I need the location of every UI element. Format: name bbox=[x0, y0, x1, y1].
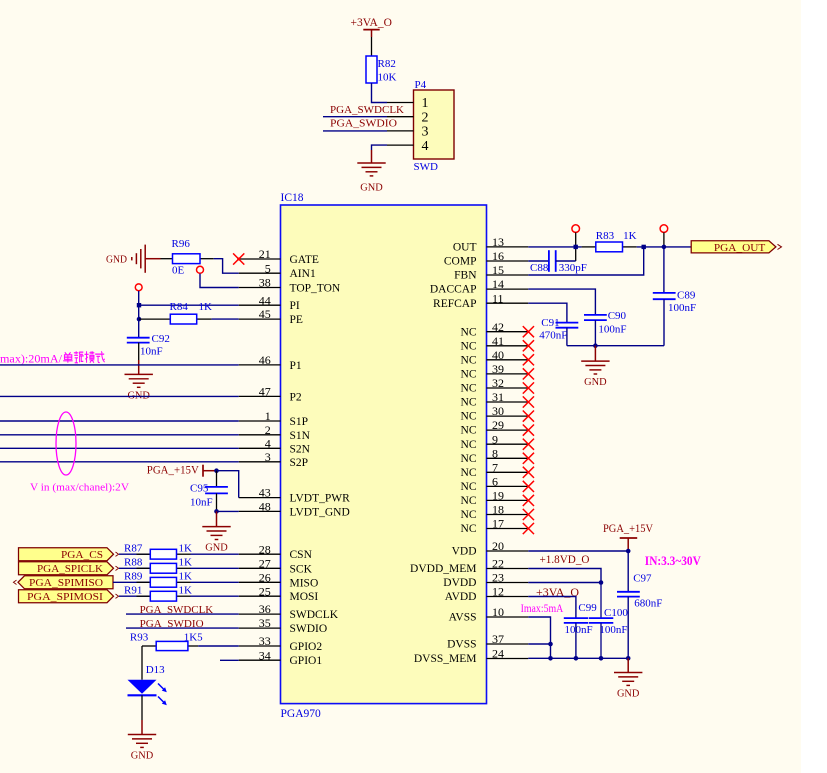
ground rail (C90/C91/C89) bbox=[567, 345, 664, 347]
svg-text:44: 44 bbox=[259, 293, 271, 307]
svg-text:GATE: GATE bbox=[290, 254, 319, 266]
port PGA_SPICLK bbox=[19, 562, 119, 575]
pin 39 (NC) right bbox=[461, 362, 534, 381]
svg-text:C95: C95 bbox=[190, 483, 209, 495]
svg-text:24: 24 bbox=[492, 647, 504, 661]
ground (left, rotated) near R96 bbox=[106, 245, 161, 273]
svg-text:NC: NC bbox=[461, 354, 477, 366]
power PGA_+15V (LVDT) bbox=[147, 465, 217, 477]
svg-text:1K: 1K bbox=[179, 585, 193, 597]
svg-text:P1: P1 bbox=[290, 360, 302, 372]
no-ERC marker (PI column top) bbox=[135, 284, 142, 291]
pin 29 (NC) right bbox=[461, 418, 534, 437]
pin 48 (LVDT_GND) left bbox=[239, 500, 350, 519]
svg-text:SWD: SWD bbox=[414, 161, 439, 173]
svg-text:40: 40 bbox=[492, 348, 504, 362]
junction rail 2 bbox=[574, 656, 579, 661]
svg-text:39: 39 bbox=[492, 362, 504, 376]
junction (gnd rail C90) bbox=[593, 343, 598, 348]
net label PGA_SWDCLK (mid) bbox=[140, 604, 214, 616]
wire pin37 bbox=[528, 643, 550, 645]
svg-text:R96: R96 bbox=[172, 238, 191, 250]
junction (R83 left) bbox=[574, 245, 578, 249]
svg-text:DVDD_MEM: DVDD_MEM bbox=[410, 563, 476, 575]
svg-text:5: 5 bbox=[265, 261, 271, 275]
pin 44 (PI) left bbox=[239, 293, 300, 312]
svg-text:330pF: 330pF bbox=[559, 262, 587, 274]
svg-text:GND: GND bbox=[360, 182, 383, 194]
svg-text:NC: NC bbox=[461, 495, 477, 507]
no-connect X pin 21 bbox=[233, 253, 244, 264]
svg-text:NC: NC bbox=[461, 425, 477, 437]
svg-text:PGA_+15V: PGA_+15V bbox=[147, 465, 200, 477]
svg-text:GPIO2: GPIO2 bbox=[290, 641, 323, 653]
svg-text:25: 25 bbox=[259, 584, 271, 598]
svg-text:10nF: 10nF bbox=[140, 346, 163, 358]
svg-text:GPIO1: GPIO1 bbox=[290, 655, 323, 667]
svg-text:SCK: SCK bbox=[290, 563, 313, 575]
ground (bottom right) bbox=[614, 658, 642, 699]
power +3VA_O bbox=[351, 17, 392, 37]
svg-text:32: 32 bbox=[492, 376, 504, 390]
pin 21 (GATE) left bbox=[239, 247, 319, 266]
svg-text:CSN: CSN bbox=[290, 549, 313, 561]
port PGA_CS bbox=[19, 548, 119, 561]
junction rail 1 bbox=[548, 656, 553, 661]
svg-text:35: 35 bbox=[259, 616, 271, 630]
wire S2P bbox=[0, 461, 239, 463]
svg-text:29: 29 bbox=[492, 418, 504, 432]
wire pin22 bbox=[528, 569, 601, 583]
pin 14 (DACCAP) right bbox=[430, 277, 528, 296]
wire R96 to AIN1 bbox=[214, 259, 239, 274]
pin 4 (S2N) left bbox=[239, 436, 311, 455]
svg-text:GND: GND bbox=[127, 389, 150, 401]
pin 17 (NC) right bbox=[461, 517, 534, 536]
no-ERC marker (R83 left) bbox=[572, 225, 580, 233]
svg-text:6: 6 bbox=[492, 475, 498, 489]
pin 42 (NC) right bbox=[461, 320, 534, 339]
svg-text:10K: 10K bbox=[378, 72, 397, 84]
capacitor C100 bbox=[589, 583, 628, 659]
svg-text:4: 4 bbox=[265, 436, 271, 450]
ground (P4) bbox=[357, 150, 385, 194]
capacitor C95 bbox=[190, 471, 228, 512]
ground (C95) bbox=[202, 511, 230, 553]
svg-text:38: 38 bbox=[259, 276, 271, 290]
wire to pin 46 bbox=[0, 364, 239, 366]
wire stub (R83 left) bbox=[575, 232, 577, 261]
resistor R82 bbox=[366, 56, 397, 84]
svg-text:NC: NC bbox=[461, 523, 477, 535]
ground (C92) bbox=[125, 360, 153, 401]
svg-text:10nF: 10nF bbox=[190, 497, 213, 509]
svg-text:NC: NC bbox=[461, 509, 477, 521]
svg-text:8: 8 bbox=[492, 446, 498, 460]
resistor R84 bbox=[139, 301, 212, 324]
pin 19 (NC) right bbox=[461, 489, 534, 508]
svg-text:DACCAP: DACCAP bbox=[430, 284, 477, 296]
wire to TOP_TON bbox=[200, 274, 239, 288]
pin 16 (COMP) right bbox=[444, 249, 528, 268]
svg-text:NC: NC bbox=[461, 439, 477, 451]
svg-text:PGA_OUT: PGA_OUT bbox=[714, 242, 766, 254]
svg-text:PGA_SWDCLK: PGA_SWDCLK bbox=[330, 104, 404, 116]
svg-text:15: 15 bbox=[492, 263, 504, 277]
pin 20 (VDD) right bbox=[452, 539, 529, 558]
pin 26 (MISO) left bbox=[239, 570, 319, 589]
svg-text:FBN: FBN bbox=[454, 270, 477, 282]
LED D13 bbox=[128, 664, 167, 705]
wire pin10 (AVSS) bbox=[528, 617, 550, 658]
svg-text:1: 1 bbox=[422, 96, 429, 111]
svg-text:max):20mA/: max):20mA/ bbox=[0, 352, 63, 366]
junction rail 3 bbox=[599, 656, 604, 661]
svg-text:43: 43 bbox=[259, 486, 271, 500]
wire pin35 bbox=[126, 627, 239, 629]
wire R84 to pin 45 bbox=[212, 318, 239, 320]
svg-text:NC: NC bbox=[461, 326, 477, 338]
port PGA_SPIMISO bbox=[13, 576, 113, 589]
svg-text:NC: NC bbox=[461, 397, 477, 409]
net label +3VA_O (AVDD) bbox=[536, 587, 579, 599]
svg-text:9: 9 bbox=[492, 432, 498, 446]
wire S1P bbox=[0, 420, 239, 422]
svg-text:C100: C100 bbox=[604, 607, 628, 619]
svg-text:+1.8VD_O: +1.8VD_O bbox=[540, 554, 590, 566]
pin 3 of P4 bbox=[387, 125, 429, 140]
svg-text:R82: R82 bbox=[378, 58, 396, 70]
svg-text:OUT: OUT bbox=[453, 242, 477, 254]
wire pin13 to R83 bbox=[528, 246, 581, 248]
pin 5 (AIN1) left bbox=[239, 261, 316, 280]
svg-text:S2P: S2P bbox=[290, 457, 309, 469]
svg-text:22: 22 bbox=[492, 557, 504, 571]
svg-text:SWDIO: SWDIO bbox=[290, 623, 328, 635]
wire P4 pin4 to GND bbox=[372, 145, 388, 150]
svg-text:1K: 1K bbox=[179, 571, 193, 583]
svg-text:42: 42 bbox=[492, 320, 504, 334]
junction (PE) bbox=[137, 317, 142, 322]
svg-text:R89: R89 bbox=[124, 571, 143, 583]
svg-text:IN:3.3~30V: IN:3.3~30V bbox=[645, 554, 701, 568]
svg-text:C88: C88 bbox=[530, 262, 549, 274]
pin 36 (SWDCLK) left bbox=[239, 602, 339, 621]
capacitor C90 bbox=[584, 310, 627, 346]
svg-text:31: 31 bbox=[492, 390, 504, 404]
wire pin34 stub bbox=[220, 659, 239, 661]
svg-text:C92: C92 bbox=[152, 333, 170, 345]
svg-text:30: 30 bbox=[492, 404, 504, 418]
svg-text:14: 14 bbox=[492, 277, 504, 291]
pin 43 (LVDT_PWR) left bbox=[239, 486, 350, 505]
junction rail 4 bbox=[626, 656, 631, 661]
pin 2 of P4 bbox=[387, 110, 429, 125]
svg-text:LVDT_PWR: LVDT_PWR bbox=[290, 493, 351, 505]
net label PGA_SWDIO (top) bbox=[330, 118, 397, 130]
pin 25 (MOSI) left bbox=[239, 584, 319, 603]
svg-text:1K5: 1K5 bbox=[184, 632, 203, 644]
svg-text:1: 1 bbox=[265, 409, 271, 423]
svg-text:17: 17 bbox=[492, 517, 504, 531]
svg-text:C99: C99 bbox=[578, 602, 597, 614]
pin 28 (CSN) left bbox=[239, 542, 313, 561]
svg-text:33: 33 bbox=[259, 634, 271, 648]
svg-text:1K: 1K bbox=[179, 557, 193, 569]
junction (OUT node) bbox=[662, 245, 667, 250]
wire power to LVDT_PWR bbox=[217, 471, 239, 498]
no-ERC marker (OUT node) bbox=[660, 225, 668, 233]
svg-text:DVSS_MEM: DVSS_MEM bbox=[414, 653, 477, 665]
wire stub (OUT node) bbox=[663, 232, 665, 247]
svg-text:R88: R88 bbox=[124, 557, 143, 569]
svg-text:12: 12 bbox=[492, 585, 504, 599]
svg-text:21: 21 bbox=[259, 247, 271, 261]
wire FBN riser bbox=[528, 247, 643, 275]
pin 9 (NC) right bbox=[461, 432, 534, 451]
svg-text:P2: P2 bbox=[290, 391, 302, 403]
ground (C90) bbox=[581, 346, 609, 388]
svg-text:S1P: S1P bbox=[290, 416, 309, 428]
capacitor C97 bbox=[617, 551, 662, 658]
annotation V in bbox=[30, 482, 129, 494]
wire D13 to ground bbox=[141, 695, 143, 720]
svg-text:AVSS: AVSS bbox=[449, 612, 477, 624]
svg-text:V in (max/chanel):2V: V in (max/chanel):2V bbox=[30, 482, 129, 494]
svg-text:PGA_CS: PGA_CS bbox=[61, 549, 103, 561]
wire PGA_SWDCLK bbox=[323, 116, 387, 118]
svg-text:S1N: S1N bbox=[290, 430, 311, 442]
svg-text:TOP_TON: TOP_TON bbox=[290, 283, 341, 295]
svg-text:100nF: 100nF bbox=[668, 302, 696, 314]
pin 1 (S1P) left bbox=[239, 409, 308, 428]
pin 10 (AVSS) right bbox=[449, 605, 529, 624]
svg-text:SWDCLK: SWDCLK bbox=[290, 609, 339, 621]
svg-text:C97: C97 bbox=[633, 573, 652, 585]
resistor R93 bbox=[130, 632, 239, 651]
svg-text:S2N: S2N bbox=[290, 443, 311, 455]
svg-text:GND: GND bbox=[131, 750, 154, 762]
pin 18 (NC) right bbox=[461, 503, 534, 522]
pin 37 (DVSS) right bbox=[447, 632, 528, 651]
svg-text:26: 26 bbox=[259, 570, 271, 584]
svg-text:DVDD: DVDD bbox=[443, 577, 476, 589]
pin 15 (FBN) right bbox=[454, 263, 528, 282]
svg-text:47: 47 bbox=[259, 385, 271, 399]
junction (VDD) bbox=[626, 549, 631, 554]
svg-text:P4: P4 bbox=[415, 79, 427, 91]
no-ERC marker (node to TOP_TON) bbox=[197, 266, 204, 273]
wire R82 to P4 pin1 bbox=[372, 83, 388, 103]
svg-text:PGA_SPIMOSI: PGA_SPIMOSI bbox=[27, 591, 103, 603]
svg-text:20: 20 bbox=[492, 539, 504, 553]
svg-text:VDD: VDD bbox=[452, 546, 477, 558]
svg-text:IC18: IC18 bbox=[281, 192, 304, 204]
net label PGA_SWDCLK (top) bbox=[330, 104, 404, 116]
svg-text:+3VA_O: +3VA_O bbox=[351, 17, 392, 29]
chinese annotation bbox=[0, 351, 105, 365]
resistor R88 bbox=[119, 557, 239, 574]
wire pin12 bbox=[528, 597, 576, 619]
capacitor C99 bbox=[564, 602, 597, 658]
resistor R91 bbox=[119, 585, 239, 602]
svg-text:LVDT_GND: LVDT_GND bbox=[290, 506, 350, 518]
svg-text:1K: 1K bbox=[623, 230, 637, 242]
pin 12 (AVDD) right bbox=[445, 585, 529, 604]
annotation ellipse bbox=[56, 412, 76, 475]
svg-text:GND: GND bbox=[617, 688, 640, 700]
junction (DVSS) bbox=[548, 642, 553, 647]
power PGA_+15V (VDD) bbox=[603, 523, 654, 551]
capacitor C88 bbox=[528, 250, 587, 274]
svg-text:R87: R87 bbox=[124, 543, 143, 555]
svg-text:D13: D13 bbox=[146, 664, 165, 676]
svg-text:REFCAP: REFCAP bbox=[433, 298, 476, 310]
junction (FBN riser) bbox=[642, 245, 646, 249]
pin 22 (DVDD_MEM) right bbox=[410, 557, 528, 576]
wire DACCAP to C90 bbox=[528, 289, 595, 315]
wire pin23 bbox=[528, 582, 601, 584]
resistor R83 bbox=[582, 230, 637, 252]
svg-text:GND: GND bbox=[584, 376, 607, 388]
wire to pin 47 bbox=[0, 395, 239, 397]
wire PGA_SWDIO bbox=[323, 130, 387, 132]
svg-text:PE: PE bbox=[290, 314, 303, 326]
wire REFCAP to C91 bbox=[528, 303, 567, 322]
svg-text:PI: PI bbox=[290, 300, 300, 312]
resistor R96 bbox=[161, 238, 214, 277]
pin 35 (SWDIO) left bbox=[239, 616, 328, 635]
pin 8 (NC) right bbox=[461, 446, 534, 465]
pin 31 (NC) right bbox=[461, 390, 534, 409]
op-amp IC18 body bbox=[281, 192, 487, 720]
pin 6 (NC) right bbox=[461, 475, 534, 494]
svg-text:11: 11 bbox=[492, 291, 504, 305]
annotation Imax bbox=[521, 603, 564, 615]
wire PI column vertical bbox=[138, 291, 140, 338]
svg-text:45: 45 bbox=[259, 307, 271, 321]
wire to pin 44 bbox=[139, 304, 239, 306]
net label +1.8VD_O bbox=[540, 554, 590, 566]
svg-text:R84: R84 bbox=[170, 301, 189, 313]
pin 24 (DVSS_MEM) right bbox=[414, 647, 528, 666]
svg-text:19: 19 bbox=[492, 489, 504, 503]
svg-text:18: 18 bbox=[492, 503, 504, 517]
svg-text:1K: 1K bbox=[179, 543, 193, 555]
port PGA_SPIMOSI bbox=[19, 590, 119, 603]
svg-text:C90: C90 bbox=[608, 310, 627, 322]
svg-text:MOSI: MOSI bbox=[290, 591, 319, 603]
svg-text:28: 28 bbox=[259, 542, 271, 556]
svg-text:34: 34 bbox=[259, 648, 271, 662]
annotation IN voltage bbox=[645, 554, 701, 568]
wire power to R82 bbox=[371, 37, 373, 56]
svg-text:PGA_SPICLK: PGA_SPICLK bbox=[37, 563, 103, 575]
svg-text:2: 2 bbox=[265, 423, 271, 437]
svg-text:R93: R93 bbox=[130, 632, 149, 644]
svg-text:48: 48 bbox=[259, 500, 271, 514]
wire R83 to port bbox=[637, 246, 692, 248]
pin 3 (S2P) left bbox=[239, 450, 308, 469]
svg-text:C91: C91 bbox=[541, 317, 559, 329]
svg-text:13: 13 bbox=[492, 235, 504, 249]
wire C92 to ground bbox=[138, 343, 140, 360]
pin 30 (NC) right bbox=[461, 404, 534, 423]
svg-text:470nF: 470nF bbox=[539, 330, 567, 342]
wire pin20 bbox=[528, 550, 628, 552]
svg-text:10: 10 bbox=[492, 605, 504, 619]
svg-text:GND: GND bbox=[106, 254, 127, 266]
svg-text:PGA_SPIMISO: PGA_SPIMISO bbox=[29, 577, 103, 589]
svg-text:C89: C89 bbox=[677, 290, 696, 302]
svg-text:NC: NC bbox=[461, 411, 477, 423]
svg-text:36: 36 bbox=[259, 602, 271, 616]
net label PGA_SWDIO (mid) bbox=[140, 618, 204, 630]
pin 23 (DVDD) right bbox=[443, 571, 528, 590]
svg-text:46: 46 bbox=[259, 353, 271, 367]
svg-text:R83: R83 bbox=[596, 230, 615, 242]
pin 1 of P4 bbox=[387, 96, 429, 111]
svg-text:NC: NC bbox=[461, 467, 477, 479]
svg-text:1K: 1K bbox=[199, 301, 213, 313]
wire pin36 bbox=[126, 613, 239, 615]
junction (LVDT_GND) bbox=[214, 509, 219, 514]
pin 11 (REFCAP) right bbox=[433, 291, 528, 310]
wire S1N bbox=[0, 434, 239, 436]
pin 40 (NC) right bbox=[461, 348, 534, 367]
pin 4 of P4 bbox=[387, 139, 429, 154]
svg-text:41: 41 bbox=[492, 334, 504, 348]
pin 27 (SCK) left bbox=[239, 556, 313, 575]
svg-text:680nF: 680nF bbox=[634, 598, 662, 610]
svg-text:PGA_SWDIO: PGA_SWDIO bbox=[330, 118, 397, 130]
svg-text:NC: NC bbox=[461, 369, 477, 381]
connector P4 bbox=[414, 79, 455, 173]
svg-text:3: 3 bbox=[265, 450, 271, 464]
svg-text:100nF: 100nF bbox=[565, 624, 593, 636]
capacitor C89 bbox=[653, 247, 696, 346]
pin 2 (S1N) left bbox=[239, 423, 311, 442]
wire S2N bbox=[0, 447, 239, 449]
svg-text:NC: NC bbox=[461, 481, 477, 493]
capacitor C91 bbox=[539, 317, 578, 346]
ground (D13) bbox=[128, 720, 156, 762]
pin 38 (TOP_TON) left bbox=[239, 276, 341, 295]
pin 33 (GPIO2) left bbox=[239, 634, 323, 653]
junction (PI) bbox=[137, 303, 141, 307]
svg-text:AVDD: AVDD bbox=[445, 591, 477, 603]
ground rail (bottom) bbox=[528, 657, 628, 659]
svg-text:AIN1: AIN1 bbox=[290, 268, 316, 280]
svg-text:37: 37 bbox=[492, 632, 504, 646]
svg-text:GND: GND bbox=[205, 542, 228, 554]
pin 34 (GPIO1) left bbox=[239, 648, 323, 667]
pin 32 (NC) right bbox=[461, 376, 534, 395]
port PGA_OUT bbox=[691, 241, 781, 254]
svg-text:MISO: MISO bbox=[290, 577, 319, 589]
svg-text:Imax:5mA: Imax:5mA bbox=[521, 603, 564, 615]
svg-text:23: 23 bbox=[492, 571, 504, 585]
svg-text:2: 2 bbox=[422, 110, 429, 125]
pin 47 (P2) left bbox=[239, 385, 302, 404]
pin 46 (P1) left bbox=[239, 353, 302, 372]
svg-text:27: 27 bbox=[259, 556, 271, 570]
pin 45 (PE) left bbox=[239, 307, 303, 326]
pin 41 (NC) right bbox=[461, 334, 534, 353]
junction (LVDT power) bbox=[214, 468, 219, 473]
svg-text:0E: 0E bbox=[172, 265, 185, 277]
svg-text:100nF: 100nF bbox=[598, 324, 626, 336]
